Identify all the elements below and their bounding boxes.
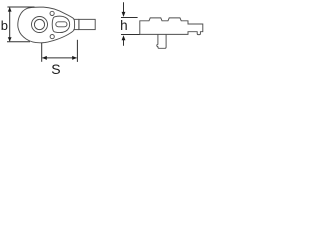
reverse lever	[52, 16, 69, 32]
h dim: arrowhead down (top)	[122, 12, 126, 17]
b dim: arrowhead up	[8, 7, 12, 11]
svg-text:h: h	[120, 18, 128, 33]
svg-text:b: b	[1, 18, 8, 33]
S dim: horizontal dimension line	[42, 57, 76, 59]
side view body with bumps, tang and pin	[140, 18, 203, 35]
drive inner circle	[34, 19, 44, 29]
h dim: arrow stems	[123, 2, 125, 12]
S dim: left extension line	[41, 43, 43, 62]
h dim: bottom extension line	[121, 33, 140, 35]
S dim: right extension line	[76, 40, 78, 62]
S dim: arrowhead right	[72, 56, 77, 60]
tang junction line	[78, 19, 80, 29]
neck top line	[73, 18, 79, 20]
b dim: arrowhead down	[8, 37, 12, 41]
b dim: bottom extension line	[7, 41, 30, 43]
tang rectangle (9x12 shank, top view)	[79, 19, 95, 29]
neck bottom line	[73, 29, 79, 31]
drive outer circle	[32, 17, 48, 33]
ratchet head outline (top view)	[18, 7, 75, 43]
S dim: arrowhead left	[42, 56, 47, 60]
b dim: top extension line	[7, 6, 34, 8]
lever slot pill	[56, 22, 67, 27]
screw bottom	[50, 35, 54, 39]
h dim: top extension line	[121, 17, 138, 19]
screw top	[50, 11, 54, 15]
b dim: vertical dimension line	[9, 8, 11, 42]
h dim: arrowhead up (bottom)	[122, 35, 126, 40]
square drive (side view) with ball detent	[157, 34, 166, 48]
svg-text:S: S	[51, 61, 60, 77]
